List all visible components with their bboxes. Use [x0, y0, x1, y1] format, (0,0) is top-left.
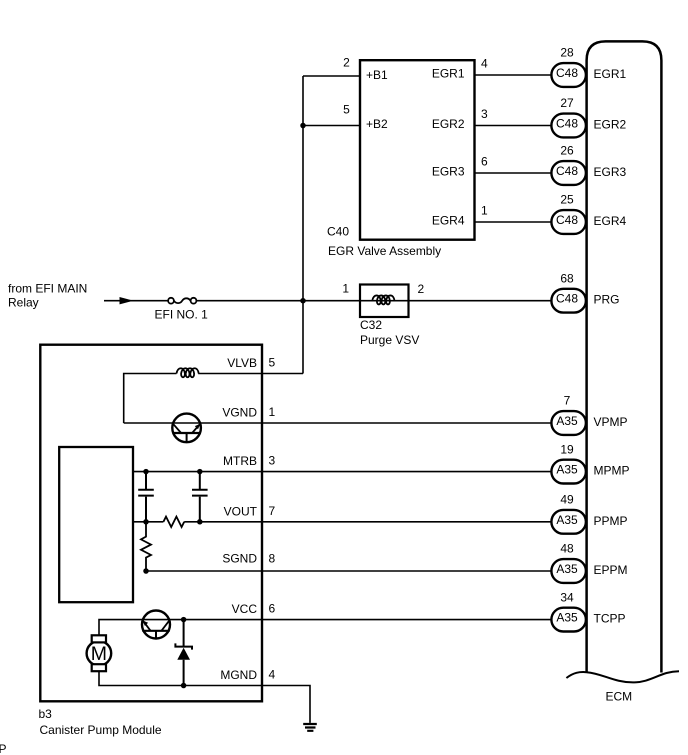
- wire MTRB / MPMP row: [133, 471, 551, 473]
- svg-text:C48: C48: [556, 213, 578, 227]
- svg-text:EGR4: EGR4: [432, 214, 465, 228]
- svg-text:7: 7: [269, 504, 276, 518]
- svg-text:7: 7: [564, 394, 571, 408]
- svg-text:8: 8: [269, 552, 276, 566]
- wire +B1: [303, 75, 360, 77]
- svg-text:EGR Valve Assembly: EGR Valve Assembly: [328, 244, 441, 258]
- purge VSV box C32: [360, 285, 409, 318]
- junction dots VOUT: [143, 519, 149, 525]
- svg-text:C40: C40: [327, 224, 349, 238]
- connector oval A35 / PPMP: [551, 510, 586, 534]
- wire EGR2 to ECM: [475, 125, 552, 127]
- svg-text:3: 3: [481, 107, 488, 121]
- zener diode: [175, 620, 192, 686]
- svg-text:MTRB: MTRB: [223, 454, 257, 468]
- svg-text:25: 25: [560, 193, 574, 207]
- svg-text:Purge VSV: Purge VSV: [360, 333, 419, 347]
- ECM body outline: [587, 41, 662, 672]
- solenoid coil in VSV: [372, 295, 394, 304]
- svg-text:EFI NO. 1: EFI NO. 1: [155, 308, 209, 322]
- svg-text:MGND: MGND: [220, 668, 257, 682]
- svg-text:4: 4: [481, 57, 488, 71]
- connector oval C48 / EGR3: [551, 161, 586, 185]
- svg-text:b3: b3: [39, 707, 53, 721]
- svg-text:5: 5: [269, 356, 276, 370]
- svg-text:from EFI MAIN: from EFI MAIN: [8, 281, 87, 295]
- motor M: [87, 635, 112, 671]
- svg-text:4: 4: [269, 668, 276, 682]
- svg-text:EPPM: EPPM: [594, 563, 628, 577]
- svg-text:C48: C48: [556, 66, 578, 80]
- svg-text:A35: A35: [556, 611, 578, 625]
- svg-text:VOUT: VOUT: [224, 504, 258, 518]
- svg-text:C48: C48: [556, 292, 578, 306]
- inductor VLVB: [177, 368, 199, 377]
- svg-text:19: 19: [560, 442, 574, 456]
- svg-text:+B1: +B1: [366, 68, 388, 82]
- svg-text:PRG: PRG: [594, 293, 620, 307]
- wire EGR3 to ECM: [475, 172, 552, 174]
- svg-text:A35: A35: [556, 414, 578, 428]
- wire VCC / TCPP row: [99, 620, 551, 636]
- svg-text:EGR2: EGR2: [432, 117, 465, 131]
- junction dot VCC: [181, 617, 187, 623]
- ECM bottom break wave: [566, 671, 679, 682]
- svg-text:M: M: [91, 643, 107, 665]
- connector oval C48 / PRG: [551, 289, 586, 313]
- svg-text:A35: A35: [556, 562, 578, 576]
- svg-text:EGR1: EGR1: [432, 67, 465, 81]
- junction dot +B2: [300, 123, 306, 129]
- svg-text:EGR2: EGR2: [594, 118, 627, 132]
- connector oval C48 / EGR1: [551, 63, 586, 87]
- svg-text:1: 1: [481, 204, 488, 218]
- wire SGND / EPPM row: [146, 570, 551, 572]
- svg-text:C48: C48: [556, 117, 578, 131]
- svg-text:VPMP: VPMP: [594, 415, 628, 429]
- connector oval A35 / EPPM: [551, 559, 586, 583]
- svg-text:+B2: +B2: [366, 117, 388, 131]
- svg-text:Relay: Relay: [8, 296, 39, 310]
- wire +B2: [303, 125, 360, 127]
- svg-text:PPMP: PPMP: [594, 514, 628, 528]
- svg-text:EGR1: EGR1: [594, 67, 627, 81]
- svg-text:VCC: VCC: [232, 602, 258, 616]
- svg-text:2: 2: [418, 282, 425, 296]
- inner sensor box: [59, 447, 133, 602]
- transistor Q2 VCC: [142, 611, 170, 639]
- svg-text:27: 27: [560, 96, 574, 110]
- connector oval A35 / TCPP: [551, 608, 586, 632]
- resistor vertical: [141, 522, 151, 571]
- ground symbol: [303, 724, 317, 731]
- wire VOUT / PPMP row: [133, 521, 551, 523]
- wire EGR4 to ECM: [475, 221, 552, 223]
- svg-text:VLVB: VLVB: [227, 356, 257, 370]
- svg-text:A35: A35: [556, 513, 578, 527]
- arrow on PRG wire: [120, 297, 134, 304]
- junction dot MGND: [181, 683, 187, 689]
- svg-text:EGR3: EGR3: [432, 165, 465, 179]
- svg-text:P: P: [0, 742, 7, 755]
- svg-text:49: 49: [560, 493, 574, 507]
- svg-text:1: 1: [342, 282, 349, 296]
- svg-text:68: 68: [560, 271, 574, 285]
- resistor horizontal: [163, 517, 184, 527]
- connector oval C48 / EGR4: [551, 210, 586, 234]
- svg-text:1: 1: [269, 405, 276, 419]
- svg-text:48: 48: [560, 542, 574, 556]
- svg-text:6: 6: [269, 602, 276, 616]
- svg-text:SGND: SGND: [222, 552, 257, 566]
- svg-text:26: 26: [560, 144, 574, 158]
- wire PRG row: [104, 300, 551, 302]
- svg-text:EGR3: EGR3: [594, 165, 627, 179]
- connector oval C48 / EGR2: [551, 114, 586, 138]
- svg-text:C48: C48: [556, 164, 578, 178]
- fuse EFI NO. 1: [168, 298, 196, 304]
- junction dot PRG: [300, 298, 306, 304]
- svg-text:34: 34: [560, 590, 574, 604]
- canister pump module box b3: [40, 345, 262, 702]
- wire EGR1 to ECM: [475, 74, 552, 76]
- svg-text:VGND: VGND: [222, 406, 257, 420]
- svg-text:28: 28: [560, 46, 574, 60]
- EGR valve assembly box C40: [360, 60, 475, 240]
- svg-text:MPMP: MPMP: [594, 464, 630, 478]
- svg-text:C32: C32: [360, 318, 382, 332]
- junction dots MTRB: [143, 469, 149, 475]
- junction dot SGND: [143, 568, 149, 574]
- connector oval A35 / VPMP: [551, 411, 586, 435]
- svg-text:2: 2: [343, 56, 350, 70]
- wire vertical bus: [302, 76, 304, 374]
- svg-text:ECM: ECM: [606, 690, 633, 704]
- svg-text:Canister Pump Module: Canister Pump Module: [40, 723, 162, 737]
- svg-text:A35: A35: [556, 463, 578, 477]
- capacitor C-a: [138, 472, 154, 522]
- svg-text:5: 5: [343, 103, 350, 117]
- transistor Q1 VGND: [172, 414, 201, 443]
- wire VLVB left: [124, 374, 303, 424]
- svg-text:6: 6: [481, 155, 488, 169]
- capacitor C-b: [192, 472, 208, 522]
- svg-text:3: 3: [269, 454, 276, 468]
- wire VGND / VPMP row: [124, 422, 552, 424]
- connector oval A35 / MPMP: [551, 460, 586, 484]
- svg-text:TCPP: TCPP: [594, 612, 626, 626]
- wire MGND row: [99, 671, 310, 723]
- svg-text:EGR4: EGR4: [594, 214, 627, 228]
